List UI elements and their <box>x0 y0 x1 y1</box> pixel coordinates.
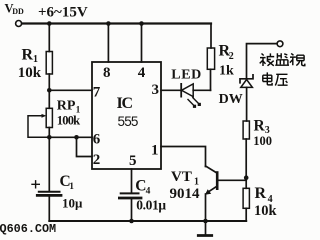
wire top power bus <box>22 22 211 24</box>
node bus-pin8 junction <box>106 21 111 26</box>
svg-text:1k: 1k <box>219 63 234 78</box>
wire monitored-voltage terminal <box>247 44 278 79</box>
label 被监视 (monitored voltage) hand-drawn glyphs <box>260 53 305 66</box>
wire base to divider <box>219 179 247 181</box>
svg-text:5: 5 <box>129 153 137 169</box>
svg-text:Q606.COM: Q606.COM <box>0 222 56 236</box>
potentiometer RP1 <box>48 90 50 108</box>
ground <box>205 221 207 235</box>
node pin2 branch junction <box>74 135 79 140</box>
svg-text:R: R <box>254 117 266 134</box>
wire pin 7 <box>49 89 92 91</box>
svg-text:4: 4 <box>146 187 151 197</box>
wire pin 8 lead <box>107 24 109 63</box>
glyph 监 <box>275 53 289 65</box>
transistor VT1 9014 <box>206 166 217 173</box>
node C4 ground junction <box>129 219 134 224</box>
svg-text:R: R <box>255 185 267 202</box>
node R1-pin7 junction <box>47 88 52 93</box>
svg-text:2: 2 <box>229 51 234 62</box>
wire pin 3 <box>161 89 181 91</box>
svg-text:9014: 9014 <box>170 186 201 202</box>
wire pin 4 lead <box>141 24 143 63</box>
svg-text:100: 100 <box>253 134 272 148</box>
svg-text:2: 2 <box>93 152 101 168</box>
svg-text:VT: VT <box>171 169 192 185</box>
wire RP1 wiper return <box>28 116 49 138</box>
label 电压 hand-drawn glyphs <box>263 72 288 85</box>
svg-text:10μ: 10μ <box>62 195 83 210</box>
svg-text:DD: DD <box>12 7 24 16</box>
svg-text:1: 1 <box>33 54 38 65</box>
node bus-R1 junction <box>47 21 52 26</box>
wire pin 6 <box>49 136 92 138</box>
capacitor C1 <box>48 137 50 191</box>
svg-text:100k: 100k <box>57 113 80 127</box>
wire ground bus <box>49 220 246 222</box>
svg-text:RP: RP <box>57 99 76 114</box>
terminal monitored voltage <box>277 41 283 47</box>
svg-text:7: 7 <box>93 85 101 101</box>
svg-text:R: R <box>22 46 34 63</box>
wire pin 2 <box>77 137 93 156</box>
resistor R2 <box>210 24 212 49</box>
node R3-R4-base junction <box>244 175 249 180</box>
svg-text:DW: DW <box>219 92 243 107</box>
node bus-pin4 junction <box>139 21 144 26</box>
node RP1 bottom junction <box>47 135 52 140</box>
terminal VDD <box>16 21 22 27</box>
svg-text:3: 3 <box>152 82 160 98</box>
capacitor C4 <box>131 169 133 193</box>
svg-text:6: 6 <box>93 132 101 148</box>
svg-text:IC: IC <box>117 95 133 112</box>
svg-text:1: 1 <box>69 182 74 192</box>
svg-text:8: 8 <box>103 65 111 81</box>
svg-text:555: 555 <box>118 114 138 129</box>
LED <box>180 84 182 97</box>
svg-text:10k: 10k <box>18 65 42 81</box>
svg-text:+6~15V: +6~15V <box>38 4 88 20</box>
glyph 电 <box>263 72 272 85</box>
IC U1 555 box <box>92 62 161 169</box>
node emitter ground junction <box>203 219 208 224</box>
glyph 被 <box>260 53 275 66</box>
svg-text:0.01μ: 0.01μ <box>136 197 166 212</box>
resistor R1 <box>48 24 50 52</box>
resistor R4 <box>245 178 247 189</box>
svg-text:10k: 10k <box>254 203 278 219</box>
glyph 压 <box>275 74 287 85</box>
zener diode DW <box>240 75 253 83</box>
LED emission arrows <box>188 100 193 106</box>
svg-text:1: 1 <box>151 143 159 159</box>
svg-text:4: 4 <box>138 65 146 81</box>
wire pin 1 to transistor <box>161 147 206 167</box>
resistor R3 <box>243 121 249 139</box>
svg-text:LED: LED <box>171 67 202 82</box>
glyph 视 <box>290 53 305 65</box>
C1 plus sign <box>32 181 39 188</box>
